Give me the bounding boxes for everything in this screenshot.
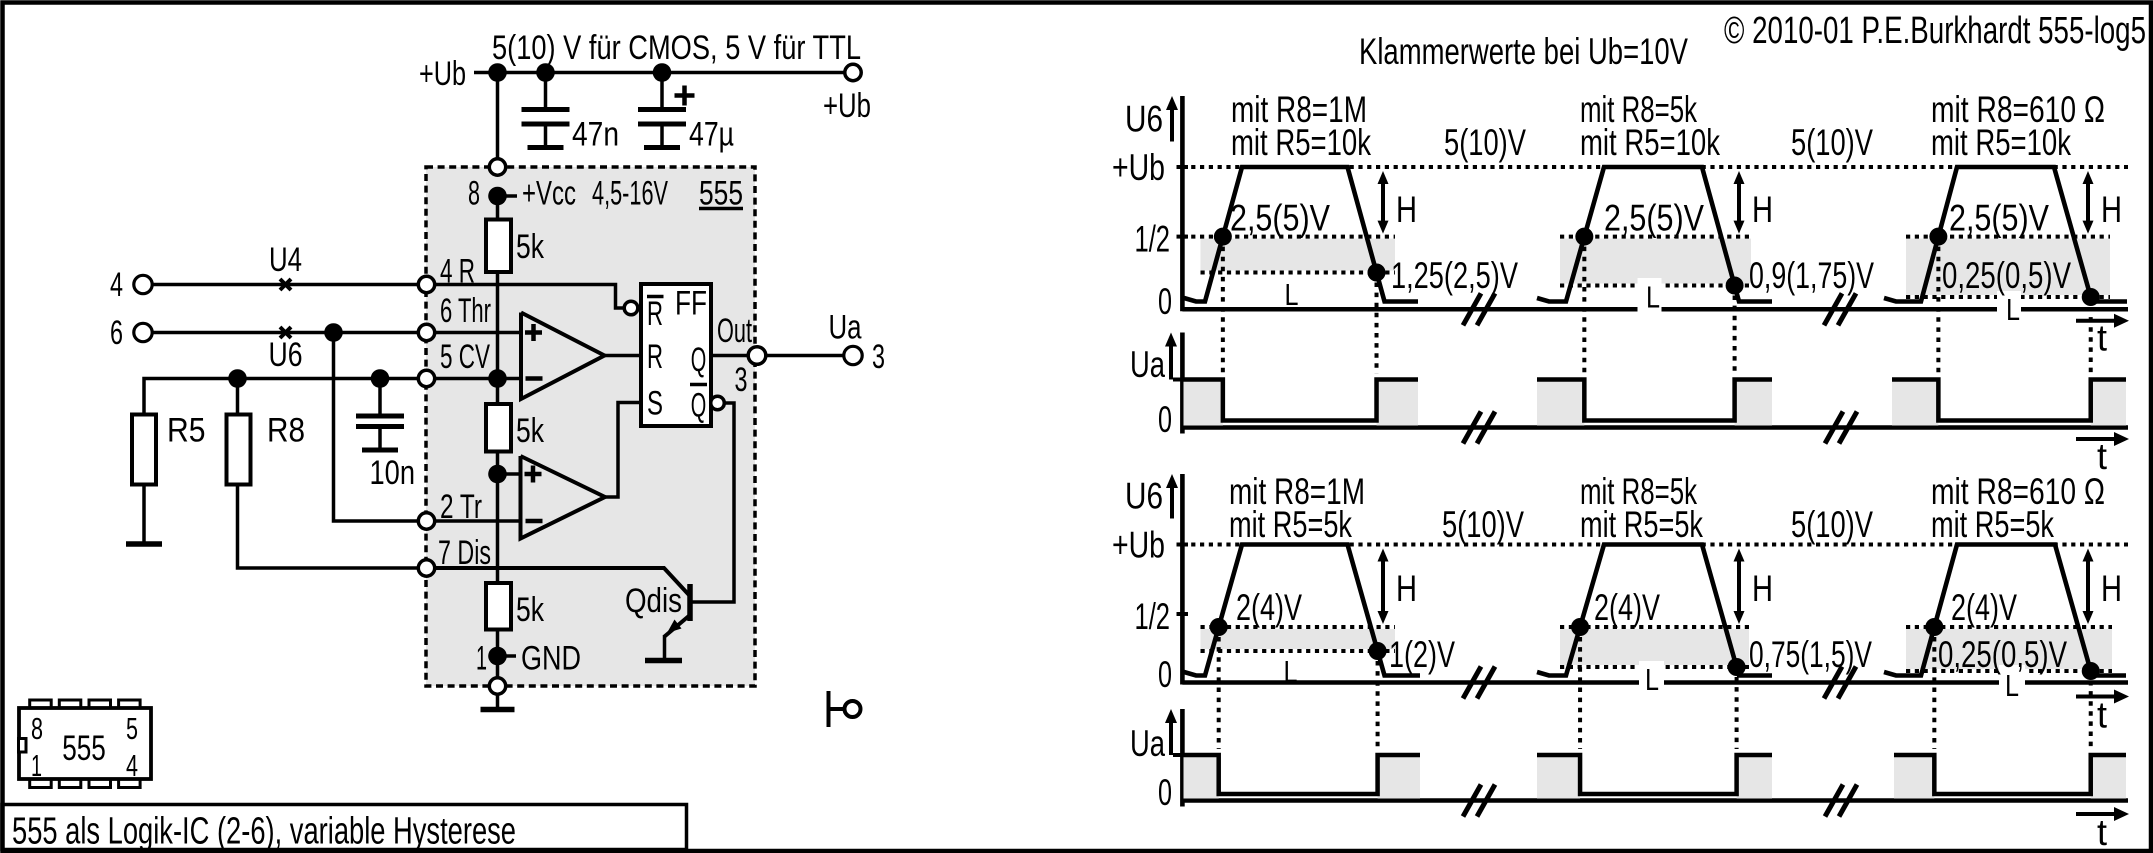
terminal 3	[844, 346, 862, 364]
Ua time axis	[1182, 798, 2128, 803]
node CV/R8	[228, 369, 247, 388]
lower threshold dotted line group2 row2	[1560, 665, 1749, 669]
svg-text:3: 3	[735, 361, 748, 399]
wire rail to pin 8	[496, 73, 500, 163]
svg-text:1: 1	[476, 640, 487, 678]
U6 axis vertical	[1180, 474, 1185, 685]
upper threshold dotted line group1 row2	[1201, 625, 1396, 629]
Ua axis arrow	[1169, 345, 1173, 380]
svg-text:Klammerwerte bei Ub=10V: Klammerwerte bei Ub=10V	[1359, 31, 1688, 72]
pin 8 +Vcc	[498, 194, 518, 198]
svg-text:+Ub: +Ub	[823, 87, 871, 125]
white backing for L group3 row1	[1997, 291, 2021, 325]
svg-text:0,25(0,5)V: 0,25(0,5)V	[1938, 634, 2067, 675]
node divider/CV	[488, 369, 507, 388]
svg-text:t: t	[2097, 695, 2108, 736]
svg-text:H: H	[1396, 189, 1417, 230]
lower threshold dotted line group1 row1	[1201, 271, 1396, 275]
wire R8 to pin 7	[238, 485, 427, 569]
wire R-C to GND pin	[496, 630, 500, 679]
Ua high tick	[1173, 378, 1184, 382]
Ua gray fill right group3 row1	[2091, 380, 2126, 426]
pin 2 node circle	[418, 513, 434, 529]
net marker U4 cross	[280, 279, 291, 290]
IC U1 555 internal dashed box	[426, 167, 755, 686]
hysteresis band group1 row1	[1201, 239, 1396, 271]
U6 axis arrow	[1170, 486, 1174, 519]
svg-text:+Ub: +Ub	[1112, 147, 1165, 188]
svg-text:2(4)V: 2(4)V	[1951, 587, 2017, 628]
Ua axis vertical	[1180, 709, 1185, 807]
capacitor C2 47u polarity +	[675, 93, 695, 98]
half axis tick	[1177, 612, 1189, 616]
H hysteresis arrow group1 row2	[1381, 560, 1385, 614]
wire divider R-A to R-B	[496, 272, 500, 404]
svg-text:5(10)V: 5(10)V	[1444, 122, 1526, 163]
dotted connector fall group1 row2	[1376, 661, 1380, 749]
capacitor C1 47n	[544, 73, 548, 108]
title box	[2, 805, 687, 850]
Ua gray fill right group3 row2	[2091, 755, 2126, 799]
wire input 6 to pin 6	[153, 331, 427, 335]
hysteresis band group2 row2	[1560, 629, 1749, 665]
svg-text:H: H	[1396, 568, 1417, 609]
pin 5 node circle	[418, 370, 434, 386]
svg-text:mit R5=5k: mit R5=5k	[1931, 504, 2054, 545]
lower threshold dotted line group2 row1	[1560, 284, 1751, 288]
svg-text:0,25(0,5)V: 0,25(0,5)V	[1942, 255, 2071, 296]
switch point dot fall group2 row1	[1726, 277, 1744, 295]
dotted connector rise group3 row2	[1932, 637, 1936, 749]
Ua gray fill right group2 row1	[1735, 380, 1772, 426]
switch point dot fall group2 row2	[1728, 658, 1746, 676]
white backing for L group2 row1	[1638, 278, 1662, 315]
upper threshold dotted line group3 row1	[1906, 235, 2110, 239]
Ua axis break 2	[1825, 785, 1843, 817]
lower threshold dotted line group3 row1	[1906, 295, 2110, 299]
U6 t arrow	[2076, 695, 2116, 699]
svg-text:U4: U4	[269, 241, 302, 279]
Ua wave group1 row1	[1184, 380, 1419, 421]
svg-text:1/2: 1/2	[1135, 219, 1171, 260]
wire comparator2 out to FF S	[605, 403, 641, 498]
svg-text:6 Thr: 6 Thr	[440, 292, 491, 330]
pin 1 node circle	[489, 678, 505, 694]
svg-text:L: L	[1646, 280, 1660, 315]
svg-text:Q: Q	[691, 387, 707, 425]
wire pin 5 to comparator1 -	[427, 377, 522, 381]
U6 axis break 2	[1824, 667, 1842, 699]
svg-text:2,5(5)V: 2,5(5)V	[1949, 198, 2049, 239]
svg-text:0: 0	[1158, 281, 1172, 322]
svg-text:5(10) V für CMOS, 5 V für TTL: 5(10) V für CMOS, 5 V für TTL	[492, 29, 861, 67]
transistor Qdis	[687, 584, 693, 621]
wire pin 7 to Qdis collector	[427, 568, 690, 595]
svg-text:S: S	[647, 385, 663, 423]
svg-text:1/2: 1/2	[1135, 596, 1171, 637]
dotted connector fall group2 row2	[1735, 677, 1739, 749]
svg-text:5k: 5k	[516, 412, 545, 450]
switch point dot rise group1 row2	[1210, 618, 1228, 636]
capacitor C2 47u	[660, 73, 664, 108]
pin 3 node circle	[748, 347, 766, 365]
svg-text:10n: 10n	[370, 454, 416, 492]
hysteresis band group3 row1	[1906, 239, 2110, 295]
pin 1 GND	[498, 654, 517, 658]
svg-text:47n: 47n	[572, 116, 619, 154]
U6 axis break 2	[1824, 293, 1842, 325]
Ua gray fill left group2 row1	[1537, 380, 1584, 426]
wire Qbar to Qdis base	[692, 403, 734, 602]
wire pin8 to R-A	[496, 196, 500, 220]
svg-text:mit R5=5k: mit R5=5k	[1580, 504, 1703, 545]
svg-text:L: L	[2006, 292, 2020, 327]
resistor R5	[132, 415, 156, 485]
U6 axis vertical	[1180, 96, 1185, 311]
dotted connector fall group3 row2	[2089, 681, 2093, 749]
hysteresis band group1 row2	[1201, 629, 1396, 649]
node wire6/trigger branch	[324, 323, 343, 342]
wire Q output to terminal 3	[711, 354, 845, 358]
comparator U2 threshold	[521, 313, 605, 400]
+Ub dotted level line	[1182, 165, 2128, 169]
svg-text:+Vcc: +Vcc	[522, 175, 576, 213]
U6 axis break 1	[1463, 293, 1481, 325]
pin 7 node circle	[418, 560, 434, 576]
lower threshold dotted line group3 row2	[1906, 669, 2112, 673]
U6 time axis	[1182, 680, 2128, 685]
dotted connector rise group3 row1	[1936, 247, 1940, 374]
Ua gray fill left group1 row2	[1184, 755, 1219, 799]
svg-text:4,5-16V: 4,5-16V	[592, 175, 668, 213]
svg-text:3: 3	[872, 338, 885, 376]
H hysteresis arrow group3 row1	[2086, 182, 2090, 223]
wire pin 4 to FF set-reset	[427, 285, 625, 309]
svg-text:555: 555	[62, 729, 106, 768]
+Ub dotted level line	[1182, 543, 2128, 547]
Ua wave group1 row2	[1184, 755, 1421, 794]
Ua axis break 1	[1463, 785, 1481, 817]
svg-text:Ua: Ua	[829, 309, 862, 347]
wire trigger branch down to pin 2	[334, 333, 427, 522]
svg-text:H: H	[2101, 568, 2122, 609]
svg-text:2(4)V: 2(4)V	[1594, 587, 1660, 628]
switch point dot fall group3 row2	[2082, 662, 2100, 680]
Ua gray fill right group1 row1	[1377, 380, 1418, 426]
FF Rbar inversion bubble	[624, 301, 638, 315]
Ua wave group2 row1	[1537, 380, 1772, 421]
Ua wave group3 row1	[1892, 380, 2126, 421]
switch point dot rise group1 row1	[1214, 228, 1232, 246]
FF Qbar inversion bubble	[711, 396, 725, 410]
upper threshold dotted line group2 row2	[1560, 625, 1749, 629]
Ua axis vertical	[1180, 333, 1185, 434]
svg-text:5(10)V: 5(10)V	[1791, 504, 1873, 545]
terminal +Ub (right)	[845, 64, 861, 80]
Ua axis arrow	[1169, 721, 1173, 755]
svg-text:H: H	[2101, 189, 2122, 230]
U6 trapezoid wave group1 row2	[1184, 545, 1420, 676]
svg-text:Ua: Ua	[1130, 344, 1165, 385]
svg-text:2,5(5)V: 2,5(5)V	[1604, 198, 1704, 239]
U6 axis break 1	[1463, 667, 1481, 699]
pin 8 node circle	[489, 159, 505, 175]
dotted connector rise group2 row2	[1578, 637, 1582, 749]
dotted connector fall group3 row1	[2089, 307, 2093, 374]
switch point dot rise group3 row1	[1929, 228, 1947, 246]
+Ub axis tick	[1177, 165, 1189, 169]
switch point dot fall group1 row1	[1368, 264, 1386, 282]
U6 trapezoid wave group1 row1	[1184, 167, 1418, 302]
switch point dot rise group2 row2	[1571, 618, 1589, 636]
pin 6 node circle	[418, 324, 434, 340]
dotted connector fall group1 row1	[1375, 283, 1379, 374]
svg-text:L: L	[1285, 277, 1299, 312]
svg-text:R8: R8	[267, 412, 305, 450]
node divider/comparator2 +	[488, 465, 507, 484]
svg-text:1,25(2,5)V: 1,25(2,5)V	[1391, 255, 1518, 296]
comparator U3 trigger	[521, 456, 606, 539]
svg-text:0: 0	[1158, 654, 1172, 695]
upper threshold dotted line group3 row2	[1906, 625, 2112, 629]
svg-text:0: 0	[1158, 772, 1172, 813]
Ua axis break 1	[1463, 412, 1481, 444]
svg-text:R: R	[647, 295, 663, 333]
U6 time axis	[1182, 307, 2128, 312]
lower threshold dotted line group1 row2	[1201, 649, 1396, 653]
svg-text:mit R5=10k: mit R5=10k	[1231, 122, 1371, 163]
svg-text:4: 4	[110, 266, 123, 304]
svg-text:U6: U6	[1125, 99, 1163, 140]
node CV/C3	[371, 369, 390, 388]
H hysteresis arrow group1 row1	[1381, 182, 1385, 223]
svg-text:R5: R5	[167, 412, 206, 450]
U6 trapezoid wave group3 row2	[1884, 545, 2126, 676]
svg-text:Q: Q	[691, 341, 707, 379]
U6 trapezoid wave group3 row1	[1884, 167, 2127, 302]
wire CV to R8	[236, 379, 240, 415]
svg-text:47µ: 47µ	[689, 116, 734, 154]
svg-text:4: 4	[126, 748, 138, 783]
flip-flop FF box	[641, 284, 711, 426]
wire input 4 to pin 4	[153, 283, 427, 287]
net marker U6 cross	[280, 327, 291, 338]
ground below Qdis emitter	[663, 635, 667, 659]
U6 axis arrow	[1170, 108, 1174, 142]
Ua t arrow	[2076, 437, 2116, 441]
svg-text:+Ub: +Ub	[1112, 525, 1165, 566]
capacitor C3 10n	[378, 379, 382, 414]
U6 trapezoid wave group2 row2	[1537, 545, 1772, 676]
Ua axis break 2	[1825, 412, 1843, 444]
Ua time axis	[1182, 425, 2128, 430]
svg-text:5k: 5k	[516, 228, 545, 266]
svg-text:U6: U6	[269, 336, 303, 374]
dotted connector rise group1 row1	[1221, 247, 1225, 374]
resistor R-A 5k (divider top)	[486, 220, 511, 273]
Ua wave group3 row2	[1894, 755, 2126, 794]
wire pin 6 to comparator1 +	[427, 331, 522, 335]
H hysteresis arrow group2 row1	[1737, 182, 1741, 223]
resistor R8	[227, 415, 251, 485]
wire comparator1 out to FF R	[605, 354, 642, 358]
dotted connector fall group2 row1	[1733, 296, 1737, 374]
upper threshold dotted line group1 row1	[1182, 235, 1395, 239]
switch point dot rise group2 row1	[1575, 228, 1593, 246]
terminal stub symbol	[827, 691, 831, 727]
pin 4 node circle	[418, 276, 434, 292]
Ua gray fill right group2 row2	[1737, 755, 1772, 799]
svg-text:0,75(1,5)V: 0,75(1,5)V	[1749, 634, 1872, 675]
wire +Ub supply rail	[474, 71, 845, 75]
svg-text:Qdis: Qdis	[625, 582, 682, 620]
switch point dot fall group1 row2	[1369, 642, 1387, 660]
resistor R-C 5k (divider bottom)	[486, 583, 511, 630]
svg-text:5(10)V: 5(10)V	[1791, 122, 1873, 163]
half axis tick	[1177, 235, 1189, 239]
svg-text:5: 5	[126, 711, 138, 746]
svg-text:+Ub: +Ub	[419, 55, 466, 93]
node junction rail/C2	[653, 63, 672, 82]
Ua gray fill right group1 row2	[1378, 755, 1420, 799]
node junction rail/pin8	[488, 63, 507, 82]
dotted connector rise group2 row1	[1582, 247, 1586, 374]
switch point dot rise group3 row2	[1925, 618, 1943, 636]
hysteresis band group2 row1	[1560, 239, 1751, 284]
upper threshold dotted line group2 row1	[1560, 235, 1751, 239]
Ua wave group2 row2	[1537, 755, 1772, 794]
H hysteresis arrow group3 row2	[2086, 560, 2090, 614]
ground below R5	[142, 485, 146, 545]
svg-text:1: 1	[31, 748, 42, 783]
svg-text:6: 6	[110, 314, 123, 352]
svg-text:2(4)V: 2(4)V	[1236, 587, 1302, 628]
svg-text:8: 8	[31, 711, 43, 746]
svg-text:U6: U6	[1125, 476, 1163, 517]
svg-text:Out: Out	[717, 312, 752, 350]
svg-text:0,9(1,75)V: 0,9(1,75)V	[1749, 255, 1874, 296]
svg-text:GND: GND	[521, 640, 581, 678]
svg-text:5(10)V: 5(10)V	[1442, 504, 1524, 545]
svg-text:t: t	[2097, 812, 2108, 853]
svg-text:mit R5=10k: mit R5=10k	[1580, 122, 1720, 163]
ground below pin 1	[496, 694, 500, 710]
svg-text:2,5(5)V: 2,5(5)V	[1230, 198, 1330, 239]
white backing for L group3 row2	[1999, 665, 2025, 702]
svg-text:H: H	[1752, 189, 1773, 230]
svg-text:8: 8	[468, 175, 480, 213]
svg-text:H: H	[1752, 568, 1773, 609]
svg-text:mit R5=10k: mit R5=10k	[1931, 122, 2071, 163]
svg-text:L: L	[1284, 654, 1298, 689]
white backing for L group2 row2	[1639, 661, 1664, 698]
Ua gray fill left group3 row1	[1892, 380, 1938, 426]
wire CV net	[144, 379, 427, 415]
Ua t arrow	[2076, 812, 2116, 816]
wire pin 2 to comparator2 -	[427, 519, 521, 523]
U6 t arrow	[2076, 319, 2116, 323]
switch point dot fall group3 row1	[2082, 288, 2100, 306]
dotted connector rise group1 row2	[1217, 637, 1221, 749]
Ua high tick	[1173, 753, 1184, 757]
svg-text:L: L	[1645, 662, 1659, 697]
Ua gray fill left group3 row2	[1894, 755, 1934, 799]
wire divider R-B to R-C	[496, 452, 500, 584]
svg-text:555 als Logik-IC (2-6), variab: 555 als Logik-IC (2-6), variable Hystere…	[12, 811, 516, 853]
svg-text:FF: FF	[675, 285, 707, 323]
svg-text:0: 0	[1158, 399, 1172, 440]
resistor R-B 5k (divider middle)	[486, 404, 511, 452]
svg-text:5k: 5k	[516, 591, 545, 629]
svg-text:R: R	[647, 338, 663, 376]
svg-text:5 CV: 5 CV	[440, 338, 490, 376]
Ua gray fill left group2 row2	[1537, 755, 1580, 799]
U6 trapezoid wave group2 row1	[1537, 167, 1772, 302]
svg-text:mit R5=5k: mit R5=5k	[1229, 504, 1352, 545]
hysteresis band group3 row2	[1906, 629, 2112, 669]
Ua gray fill left group1 row1	[1184, 380, 1223, 426]
+Ub axis tick	[1177, 543, 1189, 547]
H hysteresis arrow group2 row2	[1737, 560, 1741, 614]
DIP-8 package drawing	[30, 700, 52, 710]
svg-text:Ua: Ua	[1130, 723, 1165, 764]
node junction rail/C1	[536, 63, 555, 82]
svg-text:© 2010-01 P.E.Burkhardt 555-lo: © 2010-01 P.E.Burkhardt 555-log5	[1724, 10, 2146, 52]
svg-text:1(2)V: 1(2)V	[1389, 634, 1455, 675]
svg-text:t: t	[2097, 317, 2108, 358]
